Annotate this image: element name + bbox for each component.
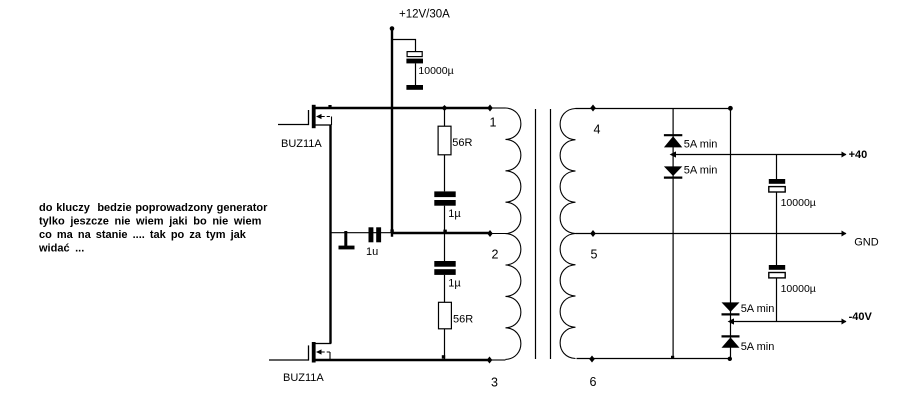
node 56R column on top rail <box>442 105 448 111</box>
wire right column <box>730 108 732 359</box>
node pin1 diamond <box>487 105 493 112</box>
wire +12V column <box>391 28 393 237</box>
wire +40 row <box>673 154 847 156</box>
svg-text:1: 1 <box>490 116 497 130</box>
svg-text:56R: 56R <box>453 313 473 325</box>
transformer core <box>536 109 551 359</box>
wire secondary bottom rail <box>577 358 731 360</box>
node 56R column on bottom rail <box>442 355 445 358</box>
capacitor 1u lower <box>434 233 455 275</box>
ground stub on middle row <box>344 231 347 246</box>
svg-text:10000µ: 10000µ <box>781 283 816 295</box>
wire GND row <box>576 233 847 235</box>
node +40 left diamond <box>670 151 676 157</box>
capacitor 1u coupling <box>369 227 382 242</box>
node tick on top rail <box>328 105 331 108</box>
resistor 56R top <box>444 108 446 191</box>
wire bottom rail primary (Q2 source to pin 3) <box>316 359 491 361</box>
svg-text:+12V/30A: +12V/30A <box>399 8 450 20</box>
diode D3 5A min <box>722 302 740 314</box>
transistor Q1 BUZ11A top <box>278 105 332 128</box>
wire top rail (drain Q1 to transformer pin 1) <box>315 107 490 109</box>
capacitor 10000u lower output <box>769 234 785 322</box>
svg-text:BUZ11A: BUZ11A <box>281 138 322 150</box>
diode D1 5A min <box>664 135 682 147</box>
wire thin lead into pin 2 <box>490 233 507 235</box>
node pin4 diamond <box>590 105 596 112</box>
svg-text:5A min: 5A min <box>684 139 718 151</box>
svg-text:10000µ: 10000µ <box>418 65 453 77</box>
node top of +12V column <box>390 26 395 31</box>
svg-text:5A min: 5A min <box>741 303 775 315</box>
svg-text:2: 2 <box>492 247 499 261</box>
svg-text:5A min: 5A min <box>741 341 775 353</box>
wire secondary top rail <box>576 108 731 110</box>
svg-text:GND: GND <box>854 236 879 248</box>
svg-text:5A min: 5A min <box>684 164 718 176</box>
transformer secondary winding 4-5-6 <box>560 109 575 359</box>
svg-text:co ma na stanie .... tak po za: co ma na stanie .... tak po za tym jak <box>39 229 247 241</box>
wire thin lead into pin 3 <box>490 359 506 361</box>
wire thin lead into pin 1 <box>490 107 506 109</box>
transistor Q2 BUZ11A bottom <box>269 342 331 363</box>
svg-text:+40: +40 <box>849 149 868 161</box>
wire diode column <box>672 108 674 359</box>
svg-text:tylko jeszcze nie wiem jaki bo: tylko jeszcze nie wiem jaki bo nie wiem <box>39 216 262 228</box>
node GND end arrow <box>842 231 847 237</box>
wire branch to reservoir cap <box>392 40 416 86</box>
ground under input cap <box>406 85 423 90</box>
svg-text:1µ: 1µ <box>448 208 461 220</box>
svg-text:10000µ: 10000µ <box>781 197 816 209</box>
node diode column on bottom rail <box>671 356 674 359</box>
node pin3 diamond <box>487 357 493 364</box>
node corner dot bottom right <box>728 357 732 361</box>
svg-text:1u: 1u <box>366 246 378 258</box>
wire -40 row <box>731 321 847 323</box>
node -40 left diamond <box>728 318 734 324</box>
svg-text:5: 5 <box>591 247 598 261</box>
node pin6 diamond <box>589 356 595 363</box>
resistor 56R bottom <box>444 275 446 360</box>
svg-text:6: 6 <box>590 375 597 389</box>
svg-text:-40V: -40V <box>849 311 873 323</box>
capacitor 1u upper <box>434 191 455 233</box>
svg-text:4: 4 <box>594 122 601 136</box>
diode D2 5A min <box>664 166 682 177</box>
svg-text:1µ: 1µ <box>448 277 461 289</box>
node pin5 diamond <box>590 230 596 237</box>
node +40 end arrow <box>842 152 847 158</box>
svg-text:BUZ11A: BUZ11A <box>283 372 324 384</box>
wire middle row (center tap) <box>331 232 393 234</box>
capacitor 10000u input <box>406 52 423 64</box>
transformer primary winding 1-2-3 <box>506 108 521 359</box>
node corner dot top right <box>728 106 733 111</box>
node cap column joins middle row <box>443 230 446 233</box>
node -40 end arrow <box>842 319 847 325</box>
svg-text:3: 3 <box>491 375 498 389</box>
diode D4 5A min <box>722 336 740 347</box>
svg-text:widać ...: widać ... <box>38 243 84 255</box>
svg-text:do kluczy bedzie poprowadzony: do kluczy bedzie poprowadzony generator <box>39 202 268 214</box>
wire left column (Q1 source to Q2 drain) <box>329 125 331 344</box>
node pin2 diamond <box>487 230 493 237</box>
capacitor 10000u upper output <box>769 155 785 234</box>
svg-text:56R: 56R <box>452 137 472 149</box>
node +12V column joins middle row <box>390 229 393 232</box>
note text block <box>38 202 268 255</box>
